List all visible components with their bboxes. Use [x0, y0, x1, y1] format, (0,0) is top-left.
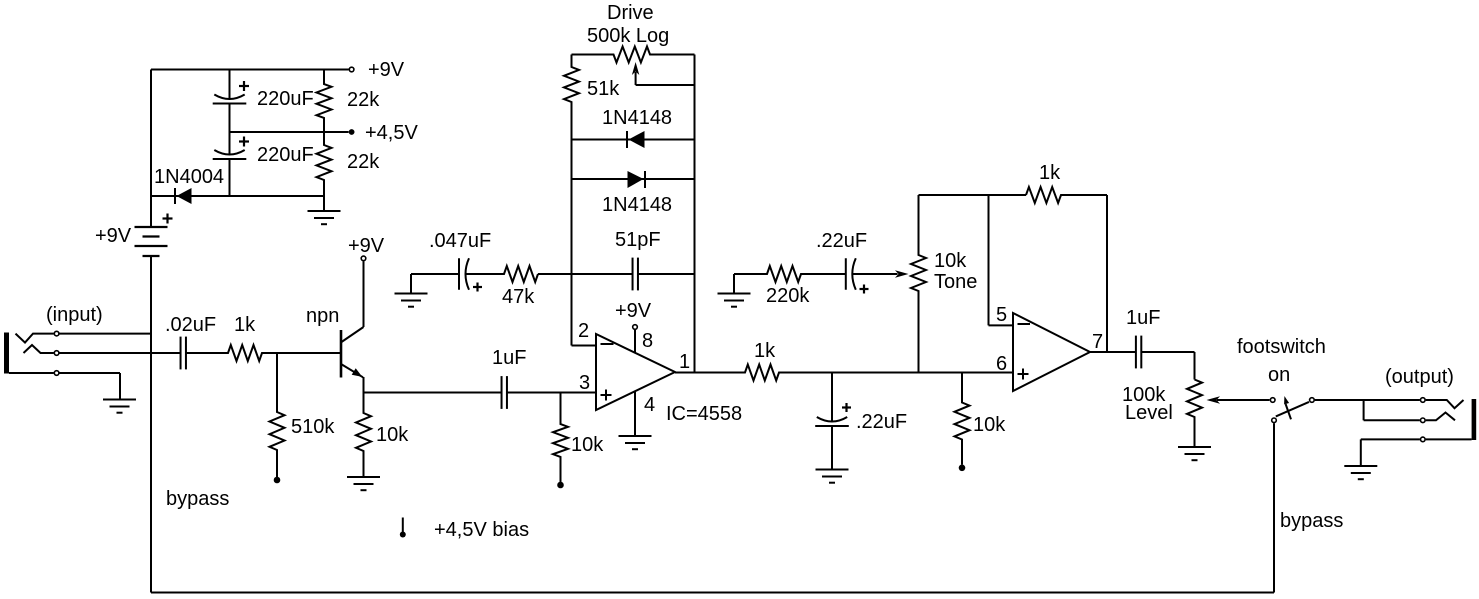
label (input)	[46, 304, 103, 326]
wire U1B output feedback vertical	[1106, 195, 1108, 352]
wire 220k branch left	[734, 274, 767, 294]
footswitch lever	[1276, 402, 1309, 417]
label 10k R12	[973, 414, 1006, 436]
diode D2 1N4148	[627, 131, 645, 148]
label +4,5V	[365, 122, 418, 144]
label 6	[996, 353, 1007, 375]
wire feedback right vertical	[694, 55, 696, 373]
svg-text:51k: 51k	[587, 78, 620, 100]
capacitor C5 51pF	[633, 258, 638, 291]
svg-text:.02uF: .02uF	[165, 314, 216, 336]
label +9V pin8	[615, 300, 652, 322]
svg-text:1N4148: 1N4148	[602, 107, 672, 129]
label 1k R11	[1039, 162, 1061, 184]
resistor R10 220k	[734, 266, 846, 282]
wire +4,5V rail	[230, 131, 349, 133]
polarity + C8	[842, 403, 851, 412]
node input tip	[54, 331, 59, 336]
footswitch on arrow	[1284, 396, 1291, 419]
label 1uF C9	[1126, 307, 1160, 329]
wire left vertical battery to rail	[150, 70, 152, 228]
label 7	[1092, 331, 1103, 353]
node output ring	[1421, 418, 1426, 423]
wire .047uF branch left	[411, 274, 459, 294]
label .047uF	[429, 230, 491, 252]
label 1N4148 top	[602, 107, 672, 129]
node output tip	[1421, 398, 1426, 403]
node footswitch common	[1310, 398, 1315, 403]
svg-text:bypass: bypass	[1280, 510, 1343, 532]
svg-text:51pF: 51pF	[615, 229, 661, 251]
svg-text:(input): (input)	[46, 304, 103, 326]
wiper Level pot arrow	[1207, 396, 1270, 403]
ground .047uF branch	[395, 294, 428, 307]
svg-text:+9V: +9V	[95, 225, 132, 247]
svg-text:1k: 1k	[234, 314, 256, 336]
wire to tone wiper	[852, 273, 898, 275]
capacitor C9 1uF	[1136, 336, 1141, 369]
svg-text:1uF: 1uF	[1126, 307, 1160, 329]
svg-text:+9V: +9V	[368, 59, 405, 81]
wire diode D2 row	[572, 139, 695, 141]
svg-text:10k: 10k	[934, 250, 967, 272]
label on	[1268, 364, 1290, 386]
label npn	[306, 305, 339, 327]
wire 51pF to output node	[639, 273, 695, 275]
label Level	[1125, 402, 1173, 424]
potentiometer P1 Drive 500k	[572, 47, 695, 63]
label 22k R1	[347, 89, 380, 111]
svg-text:.22uF: .22uF	[856, 411, 907, 433]
svg-text:.22uF: .22uF	[816, 230, 867, 252]
svg-text:Level: Level	[1125, 402, 1173, 424]
minus sign U1B	[1018, 323, 1031, 325]
svg-text:on: on	[1268, 364, 1290, 386]
svg-text:+4,5V bias: +4,5V bias	[434, 519, 529, 541]
label 51k	[587, 78, 620, 100]
input jack ring contact	[24, 345, 54, 353]
svg-text:8: 8	[642, 330, 653, 352]
label 22k R2	[347, 151, 380, 173]
label IC=4558	[666, 403, 742, 425]
label footswitch	[1237, 336, 1326, 358]
svg-text:2: 2	[578, 320, 589, 342]
svg-text:1k: 1k	[754, 340, 776, 362]
wire feedback top U1B	[919, 194, 1027, 196]
wire bottom bypass rail	[151, 592, 1274, 594]
label 47k	[502, 286, 535, 308]
svg-text:4: 4	[644, 394, 655, 416]
label bypass right	[1280, 510, 1343, 532]
label 8	[642, 330, 653, 352]
wire signal line	[832, 372, 1013, 374]
label (output)	[1385, 366, 1454, 388]
svg-text:220uF: 220uF	[257, 88, 314, 110]
svg-text:footswitch: footswitch	[1237, 336, 1326, 358]
wire input tip to bypass line	[60, 333, 152, 335]
node bias 10k	[557, 482, 564, 489]
svg-text:npn: npn	[306, 305, 339, 327]
wire footswitch to output jack	[1315, 399, 1420, 401]
label 2	[578, 320, 589, 342]
wire junction to ring	[1364, 400, 1420, 420]
potentiometer P3 Level 100k	[1187, 380, 1202, 448]
wire diode row	[151, 195, 324, 197]
op-amp U1A 4558	[596, 334, 675, 410]
label +9V battery	[95, 225, 132, 247]
svg-text:bypass: bypass	[166, 488, 229, 510]
svg-text:220uF: 220uF	[257, 144, 314, 166]
label 1N4148 bottom	[602, 194, 672, 216]
label 220k	[766, 285, 810, 307]
node input ring	[54, 351, 59, 356]
label 1	[679, 351, 690, 373]
svg-text:.047uF: .047uF	[429, 230, 491, 252]
label 4	[644, 394, 655, 416]
wire 1uF to pin3	[508, 392, 597, 394]
svg-text:220k: 220k	[766, 285, 810, 307]
label +9V collector	[348, 235, 385, 257]
label .22uF C7	[816, 230, 867, 252]
resistor R8 10k bias	[553, 393, 568, 483]
output jack body	[1472, 399, 1477, 440]
node bias 10k R12	[959, 465, 966, 472]
label 1N4004	[154, 166, 224, 188]
transistor Q1 npn	[341, 327, 364, 393]
ground C8	[816, 470, 849, 483]
svg-text:6: 6	[996, 353, 1007, 375]
polarity + C1	[239, 81, 249, 91]
label .02uF	[165, 314, 216, 336]
ground 220k branch	[718, 294, 751, 307]
label 510k	[291, 416, 335, 438]
ground pin 4	[619, 436, 652, 449]
svg-text:1N4148: 1N4148	[602, 194, 672, 216]
resistor R2 22k	[317, 132, 332, 196]
node bias 510k	[274, 477, 281, 484]
node +9V terminal	[349, 67, 354, 72]
resistor R3 1k	[187, 345, 342, 361]
pin 8 lead	[634, 330, 636, 353]
input jack tip contact	[16, 334, 54, 343]
label 51pF	[615, 229, 661, 251]
ground output jack	[1344, 466, 1377, 479]
capacitor C6 1uF	[502, 376, 507, 409]
node footswitch wiper-side	[1270, 398, 1275, 403]
capacitor C7 .22uF	[846, 258, 856, 290]
label 5	[996, 304, 1007, 326]
svg-text:10k: 10k	[973, 414, 1006, 436]
wire top +9V rail	[151, 69, 349, 71]
node footswitch bypass-side	[1272, 418, 1277, 423]
svg-text:10k: 10k	[376, 424, 409, 446]
capacitor C1 220uF	[213, 70, 247, 155]
wire input signal	[60, 352, 181, 354]
capacitor C4 .047uF	[459, 258, 469, 290]
label 10k Tone	[934, 250, 967, 272]
label 100k	[1122, 384, 1166, 406]
capacitor C3 .02uF	[181, 337, 186, 370]
svg-text:+4,5V: +4,5V	[365, 122, 418, 144]
svg-text:(output): (output)	[1385, 366, 1454, 388]
ground power supply	[308, 196, 341, 224]
battery B1 9V	[135, 227, 168, 256]
pin 4 lead	[634, 391, 636, 436]
svg-text:5: 5	[996, 304, 1007, 326]
node input sleeve	[54, 371, 59, 376]
node +4,5V	[349, 129, 355, 135]
svg-text:22k: 22k	[347, 89, 380, 111]
label 220uF C1	[257, 88, 314, 110]
svg-text:22k: 22k	[347, 151, 380, 173]
wire diode D3 row	[572, 178, 695, 180]
resistor R5 10k emitter	[356, 393, 371, 478]
resistor R6 47k	[466, 266, 538, 282]
op-amp U1B 4558	[1013, 313, 1090, 391]
svg-text:+9V: +9V	[348, 235, 385, 257]
node +9V pin8 terminal	[633, 325, 638, 330]
svg-text:7: 7	[1092, 331, 1103, 353]
polarity + C7	[860, 285, 869, 294]
svg-text:1N4004: 1N4004	[154, 166, 224, 188]
label 10k R5	[376, 424, 409, 446]
resistor R7 51k	[564, 55, 579, 346]
output jack ring contact	[1426, 413, 1455, 421]
resistor R1 22k	[317, 70, 332, 133]
label +4,5V bias	[434, 519, 529, 541]
label +9V	[368, 59, 405, 81]
label 3	[579, 372, 590, 394]
svg-text:IC=4558: IC=4558	[666, 403, 742, 425]
wire inverting input	[572, 345, 597, 347]
label 10k R8	[571, 434, 604, 456]
resistor R9 1k	[675, 365, 832, 381]
label 1k R3	[234, 314, 256, 336]
svg-text:10k: 10k	[571, 434, 604, 456]
input jack sleeve wire	[9, 372, 54, 374]
wire collector supply	[363, 261, 365, 327]
wire emitter to 1uF	[364, 392, 502, 394]
node output sleeve	[1421, 437, 1426, 442]
label 500k Log	[587, 25, 669, 47]
label 1k R9	[754, 340, 776, 362]
output jack tip contact	[1426, 400, 1464, 408]
node +9V collector terminal	[361, 256, 366, 261]
svg-text:500k Log: 500k Log	[587, 25, 669, 47]
svg-text:1: 1	[679, 351, 690, 373]
wire sleeve to ground	[60, 373, 121, 400]
wire battery negative to bottom rail	[150, 256, 152, 593]
polarity + C2	[239, 137, 249, 147]
wire output sleeve	[1361, 439, 1472, 466]
svg-text:3: 3	[579, 372, 590, 394]
svg-text:1k: 1k	[1039, 162, 1061, 184]
bias symbol	[400, 518, 406, 538]
ground Level pot	[1178, 447, 1211, 460]
svg-text:Drive: Drive	[607, 2, 654, 24]
diode D3 1N4148	[628, 171, 646, 188]
ground input jack	[103, 400, 136, 413]
resistor R4 510k	[270, 353, 285, 477]
wire bypass vertical	[1273, 423, 1275, 592]
input jack body	[4, 333, 9, 374]
potentiometer P2 Tone 10k	[911, 195, 926, 373]
resistor R11 1k feedback	[1026, 187, 1107, 203]
plus sign U1A	[601, 390, 612, 401]
diode D1 1N4004	[175, 188, 192, 204]
wire pin5 vertical	[989, 195, 1014, 325]
plus sign U1B	[1018, 369, 1029, 380]
polarity + C4	[473, 283, 482, 292]
resistor R12 10k	[955, 373, 970, 465]
wire 47k to 51pF	[538, 273, 632, 275]
wire 1uF to level pot	[1142, 352, 1195, 380]
minus sign U1A	[601, 343, 614, 345]
wire U1B output	[1090, 351, 1136, 353]
svg-text:47k: 47k	[502, 286, 535, 308]
svg-text:Tone: Tone	[934, 271, 977, 293]
svg-text:1uF: 1uF	[492, 347, 526, 369]
svg-text:510k: 510k	[291, 416, 335, 438]
ground emitter resistor	[347, 477, 380, 490]
capacitor C8 .22uF	[815, 373, 849, 470]
wiper Drive pot	[632, 62, 695, 85]
label .22uF C8	[856, 411, 907, 433]
polarity + battery	[163, 214, 173, 224]
label bypass left	[166, 488, 229, 510]
label 1uF	[492, 347, 526, 369]
wiper Tone pot arrow	[895, 270, 909, 277]
label Drive	[607, 2, 654, 24]
label Tone	[934, 271, 977, 293]
label 220uF C2	[257, 144, 314, 166]
capacitor C2 220uF	[213, 132, 247, 196]
svg-text:+9V: +9V	[615, 300, 652, 322]
